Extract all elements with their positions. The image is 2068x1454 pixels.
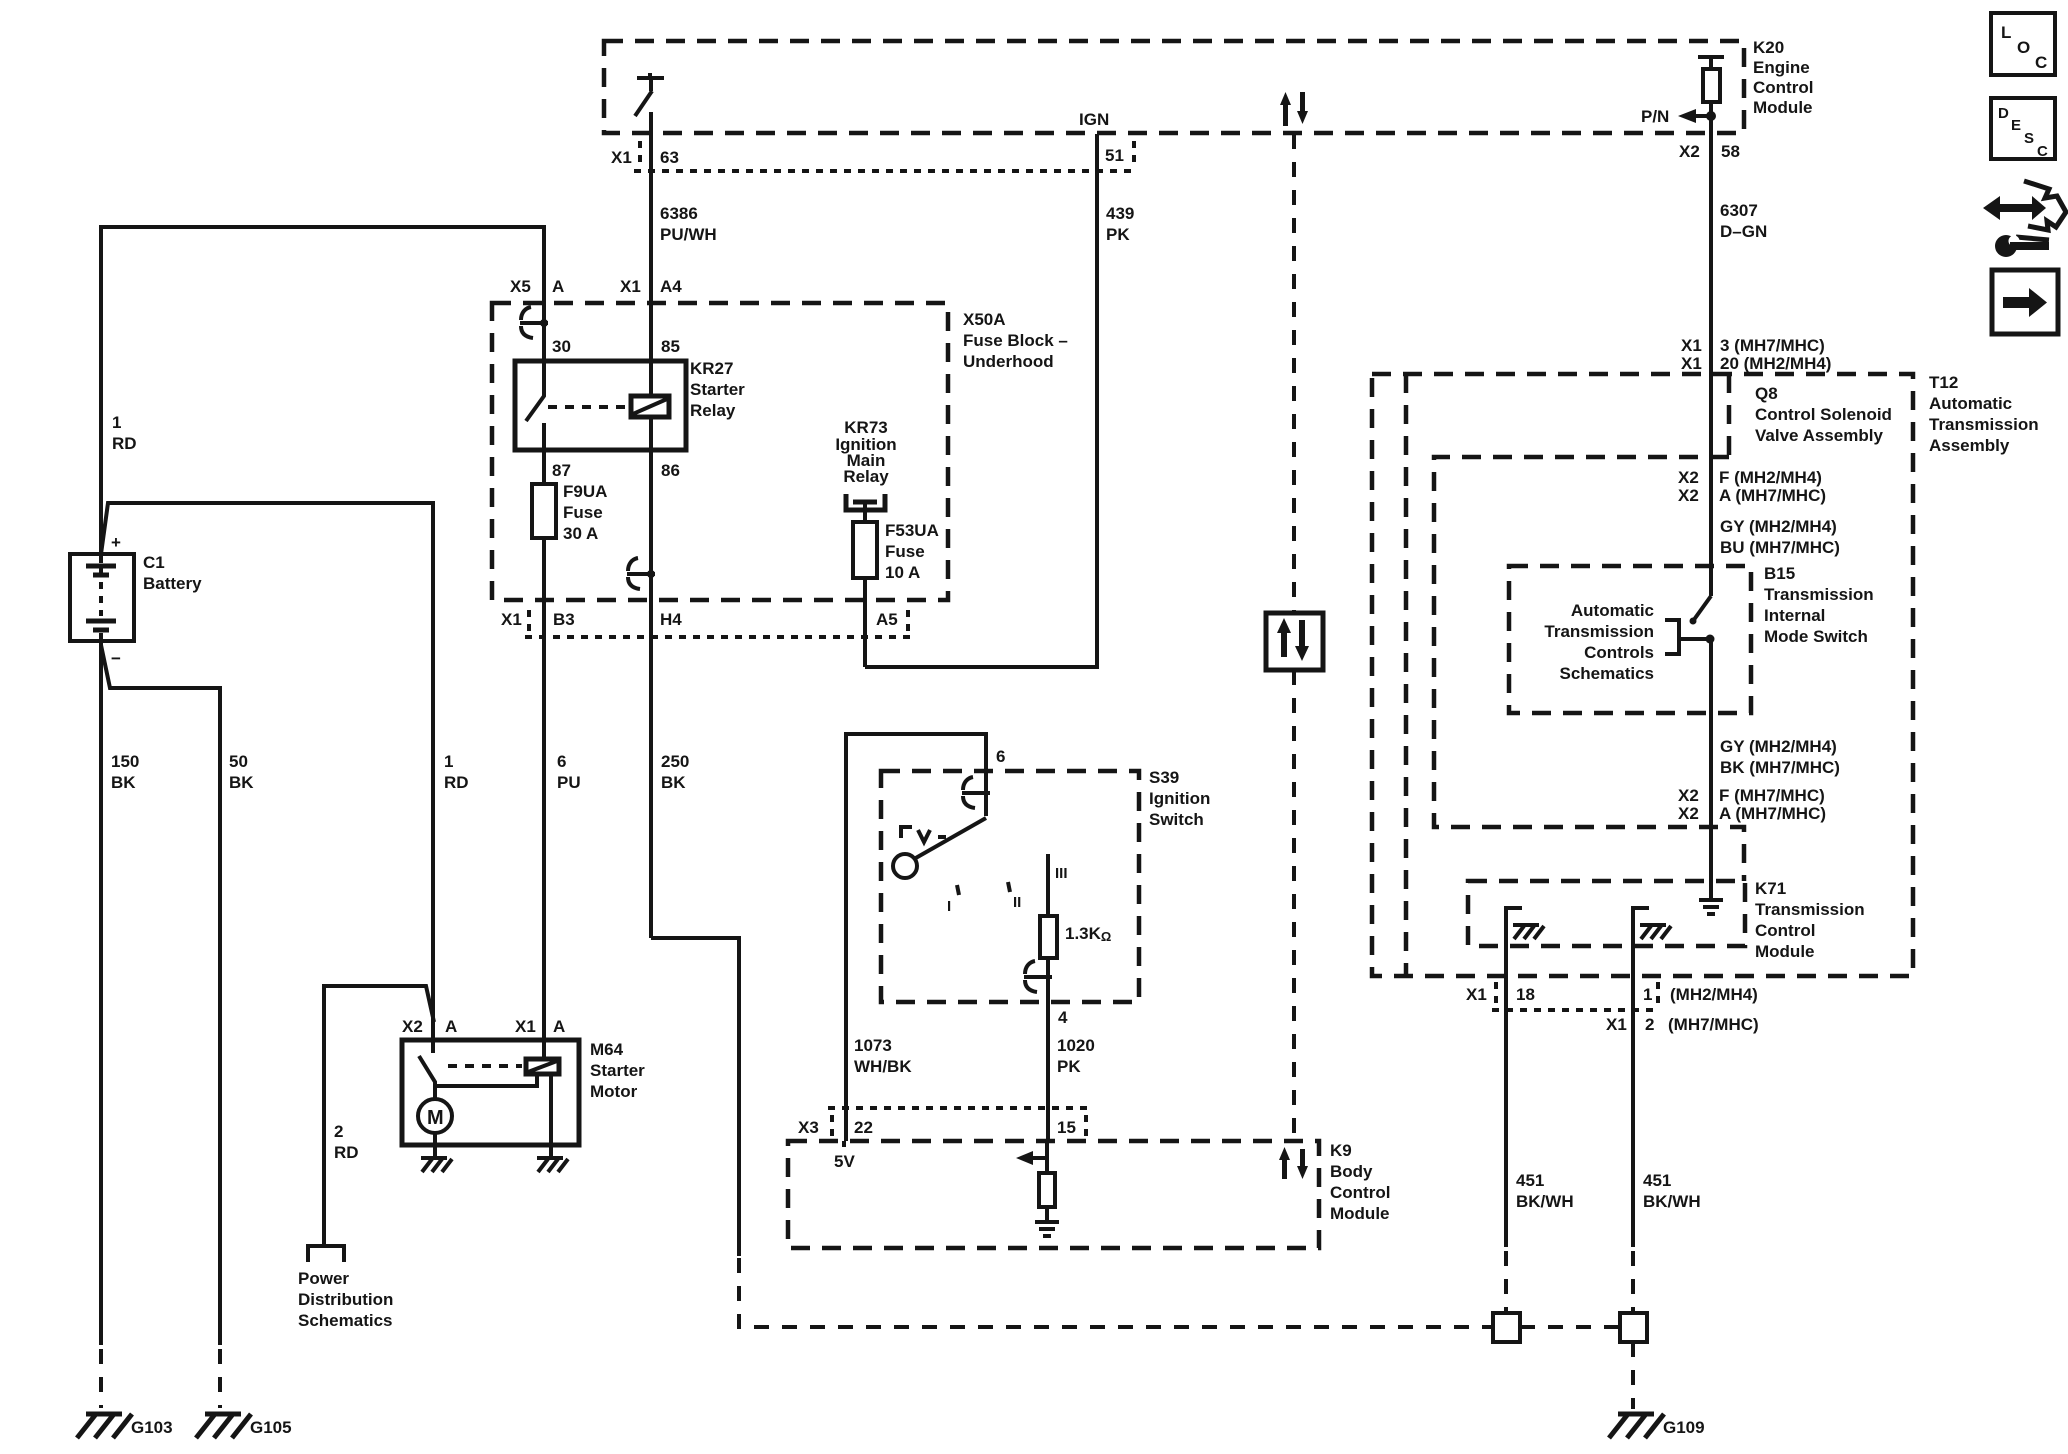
svg-text:L: L <box>2001 23 2011 42</box>
svg-text:Q8: Q8 <box>1755 384 1778 403</box>
svg-text:GY (MH2/MH4): GY (MH2/MH4) <box>1720 517 1837 536</box>
Q8 Control Solenoid Valve Assembly label <box>1755 384 1892 445</box>
svg-text:Module: Module <box>1755 942 1815 961</box>
svg-text:B3: B3 <box>553 610 575 629</box>
wire battery- branch 50 BK <box>101 645 220 1345</box>
M64 linkage <box>448 1064 522 1068</box>
svg-text:BK: BK <box>661 773 686 792</box>
svg-text:Fuse Block –: Fuse Block – <box>963 331 1068 350</box>
connector dotted line <box>1492 1008 1660 1012</box>
K9 pulldown resistor <box>1039 1173 1055 1207</box>
svg-text:6307: 6307 <box>1720 201 1758 220</box>
svg-text:Transmission: Transmission <box>1544 622 1654 641</box>
svg-text:Module: Module <box>1753 98 1813 117</box>
svg-text:KR27: KR27 <box>690 359 733 378</box>
Q8 label box edge <box>1727 374 1732 455</box>
S39 acc contact mark <box>901 827 946 842</box>
svg-text:451: 451 <box>1516 1171 1544 1190</box>
svg-text:II: II <box>1013 894 1021 911</box>
svg-text:RD: RD <box>112 434 137 453</box>
svg-text:Switch: Switch <box>1149 810 1204 829</box>
svg-text:(MH7/MHC): (MH7/MHC) <box>1668 1015 1759 1034</box>
relay KR27 coil <box>631 362 669 450</box>
svg-text:I: I <box>947 898 951 915</box>
svg-text:A5: A5 <box>876 610 898 629</box>
svg-text:Transmission: Transmission <box>1764 585 1874 604</box>
svg-text:Relay: Relay <box>843 467 889 486</box>
svg-text:IGN: IGN <box>1079 110 1109 129</box>
svg-text:PK: PK <box>1057 1057 1081 1076</box>
wire battery+ to X5 A <box>101 227 544 554</box>
svg-text:5V: 5V <box>834 1152 855 1171</box>
serial data box with arrows <box>1266 613 1323 670</box>
relay KR27 switch blade <box>526 362 544 421</box>
S39 position I <box>957 885 959 895</box>
svg-text:Battery: Battery <box>143 574 202 593</box>
icon DESC box <box>1991 98 2055 160</box>
icon forward arrow box <box>1992 270 2058 334</box>
ground G105 <box>196 1414 251 1438</box>
relay KR27 box <box>515 361 686 450</box>
svg-text:H4: H4 <box>660 610 682 629</box>
wire 86 to H4 <box>649 450 653 938</box>
icon LOC box <box>1991 13 2055 75</box>
svg-text:6386: 6386 <box>660 204 698 223</box>
mode switch B15 dashed box <box>1509 566 1751 713</box>
svg-text:G109: G109 <box>1663 1418 1705 1437</box>
svg-text:A: A <box>552 277 564 296</box>
ignition switch S39 dashed box <box>881 771 1139 1002</box>
K71 ground pin 1 <box>1506 908 1544 1247</box>
svg-text:X1: X1 <box>611 148 632 167</box>
svg-text:F (MH2/MH4): F (MH2/MH4) <box>1719 468 1822 487</box>
wire 439 PK <box>865 134 1097 667</box>
KR73 coil symbol <box>846 494 885 522</box>
svg-text:X1: X1 <box>1681 336 1702 355</box>
svg-text:B15: B15 <box>1764 564 1795 583</box>
svg-text:WH/BK: WH/BK <box>854 1057 912 1076</box>
svg-text:Relay: Relay <box>690 401 736 420</box>
svg-text:3 (MH7/MHC): 3 (MH7/MHC) <box>1720 336 1825 355</box>
off-page bracket to power distribution <box>308 1246 344 1262</box>
svg-text:30: 30 <box>552 337 571 356</box>
svg-text:BK/WH: BK/WH <box>1516 1192 1574 1211</box>
K9 Body Control Module label <box>1330 1141 1390 1223</box>
icon harness routing <box>1983 181 2066 257</box>
svg-text:150: 150 <box>111 752 139 771</box>
fuse F53UA <box>853 522 877 578</box>
ignition circuit top dashed box <box>604 41 1744 133</box>
M64 solenoid switch blade <box>419 1056 537 1099</box>
svg-text:50: 50 <box>229 752 248 771</box>
svg-text:GY (MH2/MH4): GY (MH2/MH4) <box>1720 737 1837 756</box>
svg-text:Motor: Motor <box>590 1082 638 1101</box>
svg-text:X2: X2 <box>1678 786 1699 805</box>
svg-text:439: 439 <box>1106 204 1134 223</box>
svg-text:+: + <box>111 533 121 552</box>
fuse block X50A dashed box <box>492 303 948 600</box>
wire B15 to K71 <box>1709 639 1713 899</box>
B15 wiper contact bracket <box>1665 620 1711 654</box>
ECM K20 pin resistor <box>1698 57 1724 134</box>
svg-text:X1: X1 <box>620 277 641 296</box>
svg-text:Transmission: Transmission <box>1929 415 2039 434</box>
svg-text:X50A: X50A <box>963 310 1006 329</box>
svg-text:51: 51 <box>1105 146 1124 165</box>
svg-text:1020: 1020 <box>1057 1036 1095 1055</box>
svg-text:X2: X2 <box>1679 142 1700 161</box>
pin 6 symbol <box>962 777 990 808</box>
svg-text:250: 250 <box>661 752 689 771</box>
svg-text:K20: K20 <box>1753 38 1784 57</box>
KR27 Starter Relay label <box>690 359 745 420</box>
svg-text:Assembly: Assembly <box>1929 436 2010 455</box>
svg-text:Module: Module <box>1330 1204 1390 1223</box>
svg-text:X1: X1 <box>501 610 522 629</box>
starter motor M64 box <box>402 1040 579 1145</box>
svg-text:O: O <box>2017 38 2030 57</box>
wire 2 RD branch <box>324 986 434 1244</box>
svg-text:−: − <box>111 649 121 668</box>
svg-text:BK/WH: BK/WH <box>1643 1192 1701 1211</box>
svg-text:Mode Switch: Mode Switch <box>1764 627 1868 646</box>
battery C1 <box>70 533 134 668</box>
connector dotted line B3-A5 <box>525 635 910 639</box>
svg-text:Automatic: Automatic <box>1929 394 2012 413</box>
splice block 2 <box>1620 1313 1647 1342</box>
svg-text:Control Solenoid: Control Solenoid <box>1755 405 1892 424</box>
svg-text:Schematics: Schematics <box>298 1311 393 1330</box>
svg-text:Fuse: Fuse <box>885 542 925 561</box>
up/down arrows at IGN box <box>1280 92 1308 126</box>
svg-text:X1: X1 <box>1606 1015 1627 1034</box>
earth ground in K71 <box>1699 900 1723 914</box>
svg-text:X1: X1 <box>515 1017 536 1036</box>
middle serial data dashed wire <box>1292 134 1296 1141</box>
ground G109 <box>1609 1414 1664 1438</box>
svg-text:30 A: 30 A <box>563 524 598 543</box>
svg-text:X1: X1 <box>1466 985 1487 1004</box>
svg-text:D: D <box>1998 105 2009 122</box>
svg-text:2: 2 <box>1645 1015 1654 1034</box>
svg-text:PU: PU <box>557 773 581 792</box>
svg-text:Valve Assembly: Valve Assembly <box>1755 426 1883 445</box>
svg-text:10 A: 10 A <box>885 563 920 582</box>
motor M <box>418 1099 452 1157</box>
svg-text:87: 87 <box>552 461 571 480</box>
svg-text:Starter: Starter <box>690 380 745 399</box>
wire battery+ branch to 1 RD starter feed <box>101 503 433 1053</box>
svg-text:Control: Control <box>1755 921 1815 940</box>
transmission inner dashed edge <box>1404 374 1409 976</box>
svg-text:Body: Body <box>1330 1162 1373 1181</box>
svg-text:X2: X2 <box>1678 468 1699 487</box>
pin 4 symbol <box>1024 961 1052 992</box>
svg-text:PK: PK <box>1106 225 1130 244</box>
S39 rotor blade <box>914 818 986 859</box>
connector dotted line <box>634 169 1136 173</box>
svg-text:Engine: Engine <box>1753 58 1810 77</box>
chassis ground at motor <box>421 1158 452 1172</box>
S39 Ignition Switch label <box>1149 768 1210 829</box>
KR73 Ignition Main Relay label <box>835 418 896 486</box>
control solenoid valve assembly dashed box <box>1434 457 1744 881</box>
svg-text:X2: X2 <box>402 1017 423 1036</box>
svg-text:III: III <box>1055 865 1068 882</box>
P/N arrow <box>1641 107 1711 126</box>
svg-text:15: 15 <box>1057 1118 1076 1137</box>
wire A5 <box>863 578 867 667</box>
svg-text:F (MH7/MHC): F (MH7/MHC) <box>1719 786 1825 805</box>
M64 Starter Motor label <box>590 1040 645 1101</box>
wire 87 to B3 to M64 <box>542 538 546 1059</box>
svg-text:G105: G105 <box>250 1418 292 1437</box>
svg-text:X2: X2 <box>1678 804 1699 823</box>
svg-text:2: 2 <box>334 1122 343 1141</box>
svg-text:Internal: Internal <box>1764 606 1825 625</box>
svg-text:D–GN: D–GN <box>1720 222 1767 241</box>
K9 up/down arrows <box>1279 1147 1308 1179</box>
svg-text:A: A <box>445 1017 457 1036</box>
earth ground in K9 <box>1035 1222 1059 1236</box>
K20 Engine Control Module label <box>1753 38 1813 117</box>
svg-text:BK: BK <box>111 773 136 792</box>
wire 250 BK run <box>651 938 739 1256</box>
M64 solenoid coil <box>526 1040 559 1145</box>
svg-text:1: 1 <box>112 413 121 432</box>
K71 label <box>1755 879 1865 961</box>
svg-text:RD: RD <box>334 1143 359 1162</box>
svg-text:K71: K71 <box>1755 879 1786 898</box>
svg-text:X5: X5 <box>510 277 531 296</box>
svg-text:4: 4 <box>1058 1008 1068 1027</box>
svg-text:6: 6 <box>557 752 566 771</box>
chassis ground at solenoid coil <box>549 1145 553 1157</box>
S39 pivot <box>893 854 917 878</box>
wire battery- to G103 <box>99 641 103 1345</box>
svg-text:RD: RD <box>444 773 469 792</box>
splice block 1 <box>1493 1313 1520 1342</box>
ground G103 <box>77 1414 132 1438</box>
S39 position II <box>1008 882 1010 892</box>
pin on 86 wire <box>627 558 655 589</box>
K71 ground pin 2 <box>1633 908 1671 1247</box>
svg-text:PU/WH: PU/WH <box>660 225 717 244</box>
svg-text:M: M <box>427 1107 444 1129</box>
svg-text:F9UA: F9UA <box>563 482 607 501</box>
svg-text:X3: X3 <box>798 1118 819 1137</box>
wire 1020 inside K9 <box>1045 1141 1049 1173</box>
svg-text:F53UA: F53UA <box>885 521 939 540</box>
5V stub <box>842 1141 846 1147</box>
svg-text:Ignition: Ignition <box>1149 789 1210 808</box>
X50A label <box>963 310 1068 371</box>
svg-text:A: A <box>553 1017 565 1036</box>
wire 1073 feed to pin 6 <box>846 734 986 1141</box>
svg-text:G103: G103 <box>131 1418 173 1437</box>
svg-text:Underhood: Underhood <box>963 352 1054 371</box>
svg-text:S: S <box>2024 130 2034 147</box>
svg-text:20 (MH2/MH4): 20 (MH2/MH4) <box>1720 354 1831 373</box>
svg-text:A (MH7/MHC): A (MH7/MHC) <box>1719 486 1826 505</box>
connector dotted line X3 <box>828 1106 1090 1110</box>
svg-text:Control: Control <box>1330 1183 1390 1202</box>
svg-text:Controls: Controls <box>1584 643 1654 662</box>
T12 label <box>1929 373 2039 455</box>
wire 6307 D-GN <box>1709 134 1713 596</box>
svg-text:X1: X1 <box>1681 354 1702 373</box>
key switch symbol <box>635 73 664 116</box>
wire 6386 PU/WH <box>649 112 653 362</box>
dashed drops to splice blocks <box>1506 1251 1633 1409</box>
svg-text:(MH2/MH4): (MH2/MH4) <box>1670 985 1758 1004</box>
relay KR27 linkage <box>548 405 628 409</box>
svg-text:Schematics: Schematics <box>1560 664 1655 683</box>
B15 label <box>1764 564 1874 646</box>
svg-text:58: 58 <box>1721 142 1740 161</box>
svg-text:86: 86 <box>661 461 680 480</box>
pin X5-A <box>520 307 548 338</box>
svg-text:Distribution: Distribution <box>298 1290 393 1309</box>
svg-text:P/N: P/N <box>1641 107 1669 126</box>
TCM K71 dashed box <box>1468 881 1745 946</box>
svg-text:A (MH7/MHC): A (MH7/MHC) <box>1719 804 1826 823</box>
svg-text:Fuse: Fuse <box>563 503 603 522</box>
svg-text:BU (MH7/MHC): BU (MH7/MHC) <box>1720 538 1840 557</box>
S39 resistor wire <box>1046 854 1050 916</box>
svg-text:M64: M64 <box>590 1040 624 1059</box>
svg-text:C: C <box>2035 53 2047 72</box>
svg-text:1: 1 <box>1643 985 1652 1004</box>
svg-text:S39: S39 <box>1149 768 1179 787</box>
svg-text:BK: BK <box>229 773 254 792</box>
svg-text:C1: C1 <box>143 553 165 572</box>
svg-text:22: 22 <box>854 1118 873 1137</box>
svg-text:85: 85 <box>661 337 680 356</box>
svg-text:18: 18 <box>1516 985 1535 1004</box>
resistor 1.3K <box>1040 916 1057 958</box>
svg-text:1: 1 <box>444 752 453 771</box>
svg-text:T12: T12 <box>1929 373 1958 392</box>
wire resistor to pin 4 <box>1046 958 1050 1141</box>
fuse F9UA <box>532 484 556 538</box>
svg-text:K9: K9 <box>1330 1141 1352 1160</box>
svg-text:63: 63 <box>660 148 679 167</box>
svg-text:X2: X2 <box>1678 486 1699 505</box>
svg-text:Power: Power <box>298 1269 349 1288</box>
K9 input arrow <box>1016 1151 1047 1165</box>
B15 switch blade <box>1693 596 1711 621</box>
Automatic Transmission Controls Schematics label <box>1544 601 1654 683</box>
svg-text:1073: 1073 <box>854 1036 892 1055</box>
svg-text:451: 451 <box>1643 1171 1671 1190</box>
body control module K9 dashed box <box>788 1141 1319 1248</box>
svg-text:Automatic: Automatic <box>1571 601 1654 620</box>
svg-text:Starter: Starter <box>590 1061 645 1080</box>
Power Distribution Schematics label <box>298 1269 393 1330</box>
svg-text:Transmission: Transmission <box>1755 900 1865 919</box>
svg-text:C: C <box>2037 143 2048 160</box>
svg-text:E: E <box>2011 117 2021 134</box>
svg-text:6: 6 <box>996 747 1005 766</box>
svg-text:Control: Control <box>1753 78 1813 97</box>
svg-text:BK (MH7/MHC): BK (MH7/MHC) <box>1720 758 1840 777</box>
svg-text:A4: A4 <box>660 277 682 296</box>
transmission assembly T12 outer dashed box <box>1372 374 1913 976</box>
